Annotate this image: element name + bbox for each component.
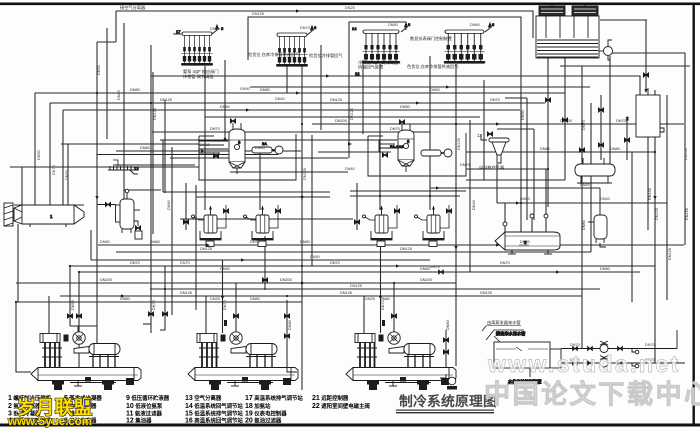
tank 2 emergency ammonia xyxy=(626,88,664,137)
wire y98 stub xyxy=(505,97,527,99)
watermark syue badge xyxy=(84,399,91,407)
title 制冷系统原理图 xyxy=(396,393,497,413)
wire y169 mid right xyxy=(466,168,548,170)
svg-text:DN70: DN70 xyxy=(210,27,220,31)
vertical x236 unit2 riser xyxy=(235,283,237,332)
vertical x601 valves run xyxy=(600,95,602,160)
vertical x186 drum feed xyxy=(185,183,187,230)
drum tray 10A xyxy=(192,205,227,240)
drum tray 10C xyxy=(363,205,398,240)
svg-text:DN200: DN200 xyxy=(335,119,347,123)
vertical x91 xyxy=(90,230,92,260)
vertical unit2 cyl feed xyxy=(205,296,207,333)
vertical unit3 cyl feed xyxy=(363,296,365,333)
vertical x610 xyxy=(609,56,611,164)
svg-text:DN80: DN80 xyxy=(470,23,480,27)
svg-text:DN50: DN50 xyxy=(220,105,230,109)
svg-text:险货位冷排管回气: 险货位冷排管回气 xyxy=(309,52,343,59)
valve station stub xyxy=(173,22,495,76)
misc pipe labels xyxy=(37,6,688,362)
svg-text:DN80: DN80 xyxy=(250,297,260,301)
vertical x287 unit2 right riser xyxy=(286,300,288,368)
receiver top fittings xyxy=(503,214,548,226)
wire lower bundle y272 xyxy=(79,271,640,273)
svg-text:6: 6 xyxy=(408,22,411,27)
svg-text:DN70: DN70 xyxy=(430,265,440,269)
vertical x505 xyxy=(504,203,506,232)
legend column 4 xyxy=(185,394,243,425)
svg-text:DN40: DN40 xyxy=(275,97,285,101)
svg-text:DN70: DN70 xyxy=(460,163,470,167)
vertical x172 xyxy=(171,147,173,315)
vertical x265 xyxy=(264,236,266,290)
svg-text:DN70: DN70 xyxy=(381,300,385,310)
svg-text:DN80: DN80 xyxy=(540,147,550,151)
wire y152 xyxy=(318,151,380,153)
small oil drum right xyxy=(588,188,607,247)
svg-text:DN40: DN40 xyxy=(345,167,355,171)
svg-text:6: 6 xyxy=(314,25,317,30)
vertical x685 xyxy=(684,53,686,245)
svg-text:DN25: DN25 xyxy=(345,6,355,10)
vertical x357 drum feed xyxy=(356,183,358,230)
svg-text:DN80: DN80 xyxy=(300,240,310,244)
intercooler group A frame xyxy=(199,134,296,180)
wire upper bundle y87 xyxy=(250,86,590,88)
wire upper bundle y132 xyxy=(152,131,430,133)
wire lower bundle y302 xyxy=(16,301,302,303)
svg-text:DN50: DN50 xyxy=(600,267,610,271)
wire unit1 inlet elbows xyxy=(143,323,151,325)
svg-text:14: 14 xyxy=(352,26,357,31)
wire upper bundle y110 xyxy=(63,109,520,111)
wire lower bundle y283 xyxy=(16,282,456,284)
svg-text:DN125: DN125 xyxy=(160,98,172,102)
flow arrows xyxy=(95,9,656,300)
vertical x380 C3 drop xyxy=(379,64,381,210)
wire upper bundle y93 xyxy=(35,92,565,94)
legend column 1 xyxy=(8,394,52,425)
svg-text:DN70: DN70 xyxy=(223,300,227,310)
vertical x260 xyxy=(259,150,261,210)
svg-text:13: 13 xyxy=(477,133,482,138)
svg-text:DN70: DN70 xyxy=(130,261,140,265)
wire y188 right xyxy=(430,187,600,189)
svg-text:DN100: DN100 xyxy=(648,188,652,200)
vertical x582 xyxy=(581,66,583,348)
wire lower bundle y245 xyxy=(98,244,684,246)
vertical x548 xyxy=(547,58,549,207)
svg-text:DN70: DN70 xyxy=(645,343,655,347)
vertical x70 xyxy=(69,266,71,326)
vertical x632 xyxy=(631,152,633,302)
svg-text:DN200: DN200 xyxy=(100,278,112,282)
svg-text:DN80: DN80 xyxy=(150,240,160,244)
drum底 filters xyxy=(206,241,437,247)
vertical x646 xyxy=(645,20,647,92)
vertical x546 xyxy=(545,169,547,232)
svg-text:DN70: DN70 xyxy=(616,119,626,123)
svg-text:DN70: DN70 xyxy=(300,26,310,30)
wire top y22 xyxy=(349,22,406,60)
svg-text:DN50: DN50 xyxy=(400,105,410,109)
svg-text:冷排管 调节阀组: 冷排管 调节阀组 xyxy=(183,73,213,80)
svg-text:21 远距控制器: 21 远距控制器 xyxy=(312,394,349,402)
svg-text:22 遮阳室间壁电磁主阀: 22 遮阳室间壁电磁主阀 xyxy=(312,402,370,410)
svg-text:DN50: DN50 xyxy=(580,183,590,187)
wire y326 elbow xyxy=(70,325,97,327)
wire upper bundle y76 xyxy=(151,76,640,95)
vertical x165 upper xyxy=(164,100,166,193)
vertical x446 xyxy=(445,330,447,374)
vertical x287 C2 drop xyxy=(286,66,288,93)
svg-text:DN125: DN125 xyxy=(252,12,264,16)
vertical x394 unit3 riser xyxy=(393,283,395,332)
pump line lower xyxy=(561,356,685,368)
svg-text:DN80: DN80 xyxy=(140,146,150,150)
svg-text:中国论文下载中心: 中国论文下载中心 xyxy=(484,379,700,409)
wire top right y20 xyxy=(600,19,647,21)
vertical x63 xyxy=(62,110,64,205)
vertical x124 xyxy=(123,23,125,202)
svg-text:数显仪表阀门控制装置: 数显仪表阀门控制装置 xyxy=(410,35,452,42)
economizer coil B xyxy=(379,140,397,157)
vertical x532 xyxy=(531,220,533,232)
svg-text:DN25: DN25 xyxy=(365,297,375,301)
wire y152 right xyxy=(466,151,632,153)
svg-text:10 低液位氨泵: 10 低液位氨泵 xyxy=(126,402,163,410)
unit risers xyxy=(67,278,457,390)
wire pump outlet y53 xyxy=(612,52,685,54)
wire lower bundle y266 xyxy=(70,265,655,267)
vertical x205 C1 drop xyxy=(204,66,206,210)
svg-text:DN125: DN125 xyxy=(668,248,672,260)
vertical x79 xyxy=(78,272,80,368)
wire y191 right xyxy=(350,190,466,192)
svg-text:接自来水用水管: 接自来水用水管 xyxy=(496,330,525,337)
vertical x349 xyxy=(348,60,350,158)
svg-text:DN80: DN80 xyxy=(167,200,171,210)
svg-text:DN80: DN80 xyxy=(388,23,398,27)
svg-text:由离蒸发器来水管: 由离蒸发器来水管 xyxy=(487,319,521,326)
wire lower bundle y252 xyxy=(116,251,591,253)
svg-text:DN70: DN70 xyxy=(180,261,190,265)
vertical x321 xyxy=(320,45,322,130)
svg-text:供液回气装置: 供液回气装置 xyxy=(358,64,383,71)
svg-text:自动放空气器: 自动放空气器 xyxy=(479,164,505,171)
svg-text:DN125: DN125 xyxy=(350,284,362,288)
chiller unit 1 xyxy=(31,332,141,390)
vertical x497 cyclone drop xyxy=(496,164,498,203)
svg-text:11 氨液过滤器: 11 氨液过滤器 xyxy=(126,410,162,418)
vertical unit1 cyl feed xyxy=(48,296,50,333)
svg-text:DN40: DN40 xyxy=(255,146,265,150)
vertical x107 xyxy=(106,28,108,139)
vertical x470 xyxy=(469,120,471,272)
svg-text:DN80: DN80 xyxy=(520,240,530,244)
wire lower bundle y289 xyxy=(150,288,600,290)
svg-text:DN80: DN80 xyxy=(130,88,140,92)
vertical x627 arrow xyxy=(626,120,628,160)
vertical x163 xyxy=(162,140,164,192)
valve station 14 xyxy=(276,33,308,67)
svg-text:DN125: DN125 xyxy=(400,247,412,251)
economizer coil A xyxy=(199,141,228,158)
vertical x35 xyxy=(34,93,36,205)
vertical x68 xyxy=(67,144,69,205)
extra pipe labels xyxy=(71,88,689,330)
svg-text:16 高温系统回气调节站: 16 高温系统回气调节站 xyxy=(185,417,243,425)
svg-text:12: 12 xyxy=(134,166,139,171)
legend column 6 xyxy=(312,394,370,410)
svg-text:DN50: DN50 xyxy=(240,87,250,91)
svg-text:DN50: DN50 xyxy=(37,150,41,160)
svg-text:6: 6 xyxy=(221,26,224,31)
svg-text:9 低压循环贮液器: 9 低压循环贮液器 xyxy=(126,394,170,402)
wire y180 right xyxy=(466,179,565,181)
wire y165 xyxy=(113,164,195,166)
intercooler vessel 6A xyxy=(229,119,245,174)
wire y129 stub xyxy=(497,128,534,130)
vertical x565 xyxy=(564,58,566,180)
svg-text:DN80: DN80 xyxy=(117,90,121,100)
svg-text:DN70: DN70 xyxy=(52,165,56,175)
svg-text:DN50: DN50 xyxy=(521,110,525,120)
legend column 5 xyxy=(245,394,303,425)
vertical x527 xyxy=(526,98,528,220)
pump line upper xyxy=(439,270,677,354)
vertical x533 tower inlet xyxy=(532,24,534,38)
left ammonia separator drum 4 xyxy=(97,189,142,239)
svg-text:DN150: DN150 xyxy=(685,208,689,220)
vertical x151 xyxy=(150,45,152,333)
border bottom xyxy=(0,424,700,427)
svg-text:14 低温系统回气调节站: 14 低温系统回气调节站 xyxy=(185,402,243,410)
oil pump set B xyxy=(390,144,452,157)
vertical x655 xyxy=(654,90,656,363)
svg-text:www.Syue.com: www.Syue.com xyxy=(7,416,92,428)
vertical x165 riser xyxy=(164,266,166,324)
chiller unit 2 xyxy=(188,332,298,390)
svg-text:PA-3A3: PA-3A3 xyxy=(390,144,404,149)
svg-text:DN200: DN200 xyxy=(420,278,432,282)
wire y167 left xyxy=(10,166,199,168)
svg-text:DN125: DN125 xyxy=(457,138,461,150)
svg-text:DN80: DN80 xyxy=(120,297,130,301)
cooling tower 5 xyxy=(536,4,613,60)
svg-text:DN125: DN125 xyxy=(350,108,354,120)
svg-text:DN70: DN70 xyxy=(210,127,220,131)
svg-text:12: 12 xyxy=(355,71,360,76)
vertical x456 long xyxy=(455,64,457,366)
svg-text:险货位,仓库冷排管供液回气: 险货位,仓库冷排管供液回气 xyxy=(248,51,300,58)
legend column 3 xyxy=(126,394,170,425)
intercooler vessel 6B xyxy=(398,120,414,172)
svg-text:DN150: DN150 xyxy=(303,168,307,180)
wire upper bundle y103 xyxy=(50,102,545,104)
air separator cyclone 13 xyxy=(481,132,509,163)
svg-text:20 氨油过滤器: 20 氨油过滤器 xyxy=(245,417,282,425)
svg-text:DN125: DN125 xyxy=(180,291,192,295)
oil pump set A xyxy=(252,141,283,154)
svg-text:DN70: DN70 xyxy=(152,300,156,310)
valves on right verticals xyxy=(545,73,648,152)
water tank xyxy=(486,330,561,385)
svg-text:DN70: DN70 xyxy=(390,127,400,131)
label return water xyxy=(482,319,521,331)
svg-text:DN80: DN80 xyxy=(288,320,292,330)
vertical x312 xyxy=(311,135,313,266)
wire upper bundle y124 xyxy=(312,123,684,125)
gauge bench 12 xyxy=(108,160,139,174)
wire y151 xyxy=(116,150,301,152)
vertical x196 xyxy=(195,185,197,310)
vertical x363 xyxy=(362,60,364,134)
vertical x22 xyxy=(21,167,23,205)
svg-text:DN50: DN50 xyxy=(430,88,440,92)
svg-text:12 集油器: 12 集油器 xyxy=(126,417,152,425)
svg-text:18 加氨站: 18 加氨站 xyxy=(245,402,271,410)
wire x632 top elbow xyxy=(632,151,655,153)
valve station 17 xyxy=(181,32,213,66)
border right xyxy=(693,3,695,427)
svg-text:17 高温系统排气调节站: 17 高温系统排气调节站 xyxy=(245,394,303,402)
svg-text:制冷系统原理图: 制冷系统原理图 xyxy=(399,393,497,409)
wire y192 left feed xyxy=(163,191,330,193)
drum valves xyxy=(183,209,451,224)
svg-text:DN50: DN50 xyxy=(97,65,101,75)
wire y190 stub xyxy=(124,189,161,191)
svg-text:DN125: DN125 xyxy=(480,291,492,295)
vertical x648 xyxy=(647,137,649,230)
svg-text:19 仪表电控制器: 19 仪表电控制器 xyxy=(245,410,287,418)
svg-text:DN70: DN70 xyxy=(582,120,586,130)
svg-text:DN80: DN80 xyxy=(582,220,586,230)
wire y154 xyxy=(97,154,278,156)
svg-text:DN125: DN125 xyxy=(330,98,342,102)
wire y158 xyxy=(170,157,348,159)
wire lower bundle y260 xyxy=(91,259,430,261)
vertical x521 xyxy=(520,30,522,232)
svg-text:色货位,仓库冷排管供液回气: 色货位,仓库冷排管供液回气 xyxy=(407,63,459,70)
svg-text:DN50: DN50 xyxy=(71,300,75,310)
border top xyxy=(0,3,700,6)
svg-text:DN70: DN70 xyxy=(490,98,500,102)
svg-text:DN125: DN125 xyxy=(153,108,157,120)
svg-text:6: 6 xyxy=(492,22,495,27)
wire top header y11 xyxy=(116,11,533,24)
svg-text:DN32: DN32 xyxy=(200,143,210,147)
drum tray 10D xyxy=(415,205,450,240)
wire lower bundle y296 xyxy=(60,295,582,297)
horizontal oil collector vessel right xyxy=(575,158,615,183)
wire upper bundle y140 xyxy=(160,139,379,141)
valve station 16 xyxy=(444,30,486,64)
svg-text:2: 2 xyxy=(626,116,629,121)
wire unit1 feed xyxy=(16,302,31,372)
svg-text:13 空气分离器: 13 空气分离器 xyxy=(185,394,222,402)
svg-text:www.studa.net: www.studa.net xyxy=(487,351,681,377)
vertical x534 xyxy=(533,129,535,220)
vertical x484 xyxy=(483,80,485,180)
chiller unit 3 xyxy=(346,332,456,390)
vertical x430 xyxy=(429,56,431,210)
svg-text:DN125: DN125 xyxy=(340,291,352,295)
svg-text:DN80: DN80 xyxy=(446,320,450,330)
svg-text:DN70: DN70 xyxy=(330,261,340,265)
svg-text:DN80: DN80 xyxy=(100,240,110,244)
wire y205 vessel top xyxy=(14,204,84,206)
svg-text:DN50: DN50 xyxy=(310,255,320,259)
vertical x225 xyxy=(224,60,226,139)
svg-text:DN80: DN80 xyxy=(610,147,620,151)
vertical unit2 riser xyxy=(222,260,224,333)
wire upper bundle y66 xyxy=(560,65,690,67)
svg-text:接空气分离器: 接空气分离器 xyxy=(120,4,146,11)
svg-text:17: 17 xyxy=(176,29,181,34)
svg-text:15 低温系统排气调节站: 15 低温系统排气调节站 xyxy=(185,410,243,418)
station labels text xyxy=(120,4,505,171)
vertical unit3 riser xyxy=(380,238,382,333)
svg-text:DN150: DN150 xyxy=(684,148,688,160)
wire y192 right feed xyxy=(350,195,460,197)
valve station 15 xyxy=(362,30,400,64)
svg-text:DN40: DN40 xyxy=(600,197,610,201)
vertical x50 xyxy=(49,103,51,205)
vertical x302 long xyxy=(301,64,303,390)
legend column 2 xyxy=(64,394,102,425)
svg-text:DN70: DN70 xyxy=(570,343,580,347)
wire upper bundle y117 xyxy=(205,116,480,118)
svg-text:DN50: DN50 xyxy=(520,197,530,201)
svg-text:DN100: DN100 xyxy=(655,208,659,220)
svg-text:DN50: DN50 xyxy=(220,267,230,271)
svg-text:岁月联盟: 岁月联盟 xyxy=(17,397,93,418)
wire top header y17 xyxy=(248,17,521,60)
svg-text:DN70: DN70 xyxy=(500,261,510,265)
wire y203 right xyxy=(497,202,667,204)
wire y144 left xyxy=(61,143,199,145)
svg-text:DN200: DN200 xyxy=(560,119,572,123)
svg-text:DN50: DN50 xyxy=(420,267,430,271)
drum tray 10B xyxy=(244,205,279,240)
svg-text:DN40: DN40 xyxy=(472,200,476,210)
wire y219 xyxy=(180,218,353,220)
intercooler group B frame xyxy=(368,133,466,176)
wire y172 v1 bottom xyxy=(230,171,348,173)
svg-text:DN200: DN200 xyxy=(280,278,292,282)
left horizontal vessel 1 xyxy=(4,203,84,227)
svg-text:DN125: DN125 xyxy=(200,247,212,251)
wire y197 left xyxy=(196,196,330,198)
receiver tank 3 xyxy=(495,232,560,254)
vertical x667 xyxy=(666,95,668,300)
svg-text:DN50: DN50 xyxy=(65,170,69,180)
svg-text:DN80: DN80 xyxy=(260,88,270,92)
vertical x18 below vessel xyxy=(17,224,19,302)
svg-text:DN25: DN25 xyxy=(210,297,220,301)
svg-text:DN70: DN70 xyxy=(250,240,260,244)
vertical x97 top elbow xyxy=(97,41,116,43)
vertical x153 xyxy=(152,72,154,234)
vertical x97 long xyxy=(96,42,98,345)
vertical x116 xyxy=(115,11,117,42)
vertical x591 xyxy=(590,103,592,252)
